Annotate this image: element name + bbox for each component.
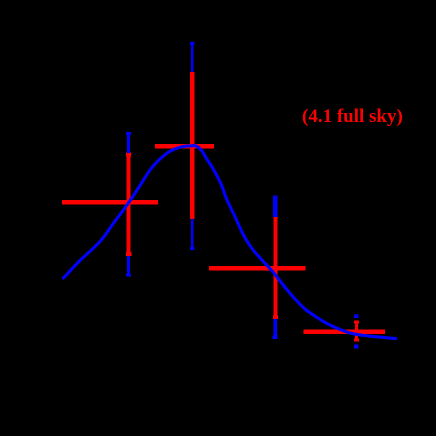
data point 3: horizontal red bar	[209, 266, 305, 271]
data point 4: horizontal red bar	[303, 330, 385, 334]
data point 1: red bottom cap	[126, 252, 131, 256]
data point 1: blue bottom cap	[126, 274, 131, 277]
data point 2: horizontal red bar	[155, 144, 214, 148]
data point 1: horizontal red bar	[62, 200, 158, 205]
data point 4: blue top cap	[354, 315, 358, 319]
data point 4: red bottom cap	[354, 338, 359, 341]
data point 4: red top cap	[354, 320, 359, 323]
data point 1: blue top cap	[126, 132, 131, 135]
data point 2: blue top cap	[190, 42, 194, 45]
data point 2: blue bottom cap	[190, 247, 194, 250]
model curve (blue)	[63, 145, 398, 338]
data point 3: blue bottom cap	[273, 336, 278, 340]
data point 1: blue upper extension	[127, 135, 130, 153]
data point 1: blue lower extension	[127, 256, 130, 274]
data point 3: blue top cap	[273, 196, 278, 200]
data point 4: red vertical shaft	[355, 320, 358, 341]
data point 3: red bottom cap	[273, 315, 278, 319]
data point 1: red vertical bar	[127, 152, 131, 256]
data point 4: blue bottom cap	[354, 345, 358, 349]
data point 1: red top cap	[126, 152, 131, 156]
data point 2: red vertical bar	[190, 72, 194, 219]
data point 2: blue upper extension	[191, 45, 194, 72]
data point 2: blue lower extension	[191, 219, 194, 247]
data point 3: blue upper extension	[273, 199, 277, 217]
data point 3: blue lower extension	[274, 319, 277, 336]
annotation text	[302, 106, 403, 128]
data point 3: red vertical bar	[274, 217, 278, 319]
